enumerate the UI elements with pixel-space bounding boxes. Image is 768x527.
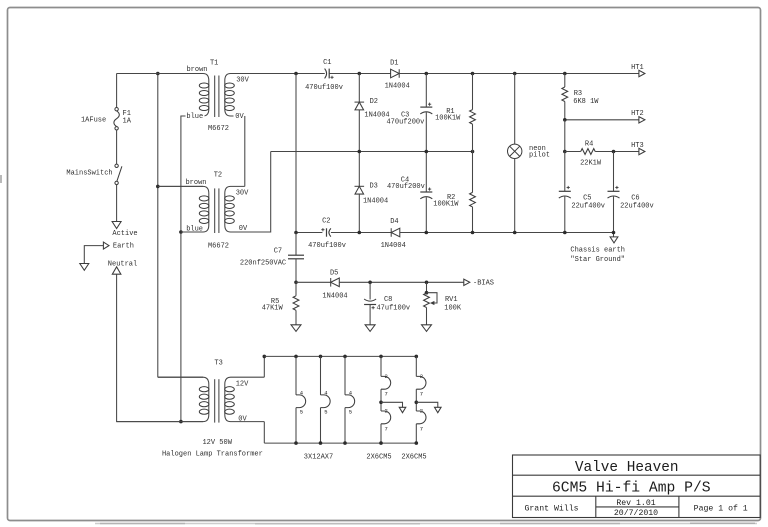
resistor R1 xyxy=(470,110,476,125)
wire mid rail to R2 xyxy=(472,152,474,193)
junction heater mid 6CM5 #2 xyxy=(415,401,419,405)
junction Active bus at top rail xyxy=(156,72,160,76)
scan artifact bottom edge xyxy=(95,523,757,525)
wire R1 to mid rail xyxy=(472,124,474,151)
svg-text:"Star Ground": "Star Ground" xyxy=(570,256,625,264)
wire top rail to C3 xyxy=(425,74,427,108)
heater 6CM5 #2 wire bottom xyxy=(415,424,417,443)
resistor R5 xyxy=(293,296,299,311)
junction mid rail D2/D3 xyxy=(358,150,362,154)
heater 6CM5 #2 upper xyxy=(416,376,426,389)
svg-text:Neutral: Neutral xyxy=(108,260,137,268)
svg-text:brown: brown xyxy=(185,179,206,187)
junction heater bottom bus 12AX7 #3 xyxy=(343,441,347,445)
svg-text:M6672: M6672 xyxy=(208,125,229,133)
wire T3 0V to heater bottom bus xyxy=(263,422,265,444)
svg-text:1N4004: 1N4004 xyxy=(381,242,406,250)
junction top rail C7 bus xyxy=(294,72,298,76)
svg-text:30V: 30V xyxy=(236,77,249,85)
svg-text:Valve Heaven: Valve Heaven xyxy=(575,460,679,476)
svg-text:C1: C1 xyxy=(323,59,331,67)
svg-text:-BIAS: -BIAS xyxy=(473,279,494,287)
wire D4 to chassis earth corner xyxy=(400,233,614,237)
svg-text:R4: R4 xyxy=(585,141,593,149)
wire HT2 row to arrow xyxy=(565,119,639,121)
svg-text:2X6CM5: 2X6CM5 xyxy=(401,454,426,462)
heater 12AX7 #2 wire bottom xyxy=(320,408,322,444)
wire neon to bottom rail xyxy=(514,159,516,233)
wire C4 to bottom rail xyxy=(425,197,427,232)
svg-text:C2: C2 xyxy=(322,217,330,225)
HT3 output arrow xyxy=(639,148,645,154)
junction heater bottom bus 6CM5 #1 xyxy=(379,441,383,445)
svg-text:2: 2 xyxy=(385,408,388,415)
junction heater bottom bus 12AX7 #2 xyxy=(319,441,323,445)
wire T2 0V up to mid rail xyxy=(231,152,271,233)
junction top rail C3 xyxy=(425,72,429,76)
svg-text:220nf250VAC: 220nf250VAC xyxy=(240,259,286,267)
wire bus C1-left down to bottom rail xyxy=(295,74,297,233)
heater 12AX7 #1 xyxy=(296,395,306,408)
diode D3 xyxy=(355,186,364,194)
heater 6CM5 #2 wire mid xyxy=(415,389,417,411)
capacitor C6 xyxy=(608,190,620,192)
svg-text:12V 50W: 12V 50W xyxy=(202,439,232,447)
wire D2 to mid rail xyxy=(358,110,360,152)
transformer T3 xyxy=(117,377,265,422)
svg-text:Page 1 of 1: Page 1 of 1 xyxy=(694,503,748,513)
svg-text:2: 2 xyxy=(385,373,388,380)
svg-text:3X12AX7: 3X12AX7 xyxy=(304,454,333,462)
ground symbol R5 xyxy=(291,325,301,332)
svg-text:22uf400v: 22uf400v xyxy=(571,203,605,211)
capacitor C8 xyxy=(364,299,376,301)
wire Active bus down to T2 and T3 primary tops xyxy=(157,74,159,378)
junction blue bus at T2 blue xyxy=(179,230,183,234)
wire mid rail to D3 xyxy=(358,152,360,187)
Earth terminal arrow xyxy=(103,242,109,249)
wire C6 to bottom rail xyxy=(613,197,615,233)
heater 12AX7 #2 wire top xyxy=(320,356,322,395)
heater 6CM5 #1 wire bottom xyxy=(380,424,382,443)
diode D5 xyxy=(331,278,340,287)
junction bottom rail C5 xyxy=(563,231,567,235)
svg-text:D1: D1 xyxy=(390,59,398,67)
capacitor C2 xyxy=(326,228,328,236)
wire HT2 node down to HT3 node xyxy=(564,120,566,152)
ground symbol C8 xyxy=(365,325,375,332)
capacitor C5 xyxy=(559,190,571,192)
wire blue bus T1 primary bottom down xyxy=(181,116,203,422)
junction bias row C8 xyxy=(368,281,372,285)
junction bottom rail R2 xyxy=(471,231,475,235)
wire D3 to bottom rail xyxy=(358,194,360,232)
chassis earth arrow xyxy=(610,237,618,243)
junction mid rail C3/C4 xyxy=(425,150,429,154)
capacitor C7 xyxy=(288,254,304,256)
label 0V T1 xyxy=(234,112,246,119)
svg-text:47uf100v: 47uf100v xyxy=(376,305,410,313)
svg-text:22K1W: 22K1W xyxy=(580,159,602,167)
svg-text:blue: blue xyxy=(186,226,203,234)
junction bottom rail C4 xyxy=(425,231,429,235)
svg-text:HT2: HT2 xyxy=(631,110,644,118)
heater 6CM5 #2 lower xyxy=(416,411,426,424)
wire Neutral bus down and right to T3 primary bottom xyxy=(117,274,203,421)
title block divider 1 xyxy=(513,474,761,476)
svg-text:1N4004: 1N4004 xyxy=(322,292,347,300)
heater 12AX7 #3 wire top xyxy=(344,356,346,395)
svg-text:47K1W: 47K1W xyxy=(262,305,284,313)
wire mid rail (T2 0V to R1/R2 junction) xyxy=(271,151,473,153)
junction heater top bus 6CM5 #2 xyxy=(415,355,419,359)
HT1 output arrow xyxy=(639,70,645,76)
svg-text:D3: D3 xyxy=(369,183,377,191)
svg-text:Earth: Earth xyxy=(113,243,134,251)
svg-text:470uf100v: 470uf100v xyxy=(305,84,343,92)
svg-text:30V: 30V xyxy=(236,190,249,198)
junction heater top bus 6CM5 #1 xyxy=(379,355,383,359)
wire C6 column xyxy=(613,152,615,192)
wire T2 blue to blue bus xyxy=(181,231,203,233)
svg-text:100K1W: 100K1W xyxy=(435,115,461,123)
svg-text:RV1: RV1 xyxy=(445,296,458,304)
wire T3 12V to heater top bus xyxy=(263,356,265,377)
HT2 output arrow xyxy=(639,117,645,123)
svg-text:6CM5 Hi-fi Amp P/S: 6CM5 Hi-fi Amp P/S xyxy=(552,481,711,497)
Neutral terminal arrow (up) xyxy=(112,267,121,274)
junction bottom rail neon xyxy=(513,231,517,235)
junction HT3 node left xyxy=(563,150,567,154)
junction heater bottom bus 6CM5 #2 xyxy=(415,441,419,445)
heater 12AX7 #3 xyxy=(345,395,355,408)
wire top rail to R1 xyxy=(472,74,474,110)
heater 6CM5 #1 upper xyxy=(381,376,391,389)
title block divider 2 xyxy=(513,495,761,497)
svg-text:D4: D4 xyxy=(390,218,398,226)
wire C5 to bottom rail xyxy=(564,197,566,233)
svg-text:2X6CM5: 2X6CM5 xyxy=(366,454,391,462)
transformer T2 xyxy=(158,186,271,233)
svg-text:Rev 1.01: Rev 1.01 xyxy=(616,499,655,508)
heater 6CM5 #1 lower xyxy=(381,411,391,424)
svg-text:R3: R3 xyxy=(574,90,582,98)
resistor R3 xyxy=(562,87,568,102)
heater 6CM5 #2 wire top xyxy=(415,356,417,376)
junction heater top bus 12AX7 #3 xyxy=(343,355,347,359)
junction bias row R5 xyxy=(294,281,298,285)
svg-text:Chassis earth: Chassis earth xyxy=(570,247,625,255)
trimpot RV1 xyxy=(424,293,430,308)
svg-text:5: 5 xyxy=(349,409,352,416)
wire HT3 node to C5 xyxy=(564,152,566,192)
svg-text:7: 7 xyxy=(420,391,423,398)
svg-text:D2: D2 xyxy=(370,98,378,106)
diode D2 xyxy=(355,102,364,110)
svg-text:MainsSwitch: MainsSwitch xyxy=(66,170,112,178)
svg-text:C7: C7 xyxy=(274,247,282,255)
wire mid rail to C4 xyxy=(425,152,427,193)
wire Active feed from top rail to fuse xyxy=(116,74,118,108)
resistor R5 wire xyxy=(295,282,297,296)
wire R5 to ground xyxy=(295,310,297,325)
svg-text:C6: C6 xyxy=(631,194,639,202)
heater 12AX7 #1 wire top xyxy=(295,356,297,395)
svg-text:T2: T2 xyxy=(214,171,222,179)
wire heater bottom bus xyxy=(264,442,416,444)
wire C2 to D4 xyxy=(331,232,391,234)
capacitor C8 wire xyxy=(369,282,371,299)
junction Active bus at T2 brown xyxy=(156,185,160,189)
ground symbol RV1 xyxy=(422,325,432,332)
wire switch to Active terminal xyxy=(116,185,118,222)
wire C1 to D1 xyxy=(329,73,390,75)
wire R4 to HT3 arrow xyxy=(595,151,639,153)
svg-text:T3: T3 xyxy=(214,359,222,367)
ground symbol 6CM5 #1 xyxy=(399,407,406,412)
capacitor C3 xyxy=(420,106,432,108)
svg-text:7: 7 xyxy=(420,425,423,432)
resistor R4 xyxy=(581,149,596,155)
wire D5 to BIAS arrow xyxy=(339,281,464,283)
svg-text:HT1: HT1 xyxy=(631,64,644,72)
svg-text:brown: brown xyxy=(186,66,207,74)
title block vertical divider left xyxy=(595,496,597,517)
svg-text:1AFuse: 1AFuse xyxy=(81,117,106,125)
wire top rail to neon xyxy=(514,74,516,145)
junction mid rail R1/R2 xyxy=(471,150,475,154)
svg-text:7: 7 xyxy=(385,391,388,398)
BIAS output arrow xyxy=(464,279,470,285)
wire bottom rail to C7 xyxy=(295,233,297,256)
svg-text:6K8 1W: 6K8 1W xyxy=(573,98,599,106)
wire C3 to mid rail xyxy=(425,112,427,151)
switch MainsSwitch xyxy=(115,164,118,167)
junction top rail D2 xyxy=(358,72,362,76)
wire top rail to D2 xyxy=(358,74,360,103)
svg-text:22uf400v: 22uf400v xyxy=(620,203,654,211)
wire bias row to D5 xyxy=(296,281,331,283)
resistor R2 xyxy=(470,192,476,206)
wire heater top bus xyxy=(264,355,416,357)
wire R3 to HT2 node xyxy=(564,102,566,120)
svg-text:2: 2 xyxy=(420,373,423,380)
svg-text:470uf200v: 470uf200v xyxy=(387,183,425,191)
wire top rail left (Active to T1 brown) xyxy=(117,73,203,75)
svg-text:1N4004: 1N4004 xyxy=(385,83,410,91)
junction heater top bus 12AX7 #2 xyxy=(319,355,323,359)
wire fuse to switch xyxy=(116,130,118,164)
svg-text:pilot: pilot xyxy=(529,151,550,159)
svg-text:100K1W: 100K1W xyxy=(433,201,459,209)
diode D4 xyxy=(391,228,400,237)
heater 12AX7 #2 xyxy=(321,395,331,408)
svg-text:Active: Active xyxy=(112,230,137,238)
svg-text:2: 2 xyxy=(420,408,423,415)
scan artifact left edge xyxy=(0,175,2,183)
wire T1 0V to T2 30V xyxy=(244,116,246,186)
junction top rail R3 xyxy=(563,72,567,76)
wire RV1 to ground xyxy=(426,308,428,325)
title block frame xyxy=(513,455,761,518)
svg-text:D5: D5 xyxy=(330,269,338,277)
svg-text:12V: 12V xyxy=(236,381,249,389)
junction bias row RV1 xyxy=(425,281,429,285)
junction HT2 node xyxy=(563,118,567,122)
label blue T1 xyxy=(186,112,205,119)
junction bottom rail bus xyxy=(294,231,298,235)
svg-text:C5: C5 xyxy=(583,194,591,202)
wire HT3 node to R4 xyxy=(565,151,581,153)
wire R2 to bottom rail xyxy=(472,207,474,233)
wire 6CM5 #2 mid to ground xyxy=(416,402,438,407)
heater 6CM5 #1 wire mid xyxy=(380,389,382,411)
junction top rail neon xyxy=(513,72,517,76)
trimpot RV1 wire xyxy=(426,282,428,293)
svg-text:blue: blue xyxy=(186,113,203,121)
wire D1 to HT1 arrow xyxy=(399,73,639,75)
junction heater top bus 12AX7 #1 xyxy=(294,355,298,359)
svg-text:470uf200v: 470uf200v xyxy=(386,119,424,127)
wire 6CM5 #1 mid to ground xyxy=(381,402,403,407)
svg-text:M6672: M6672 xyxy=(208,243,229,251)
svg-text:20/7/2010: 20/7/2010 xyxy=(614,508,658,518)
title block vertical divider right xyxy=(678,496,680,517)
wire Earth to ground xyxy=(84,246,103,264)
junction heater top bus corner xyxy=(263,355,267,359)
svg-text:Halogen Lamp Transformer: Halogen Lamp Transformer xyxy=(162,451,263,459)
junction heater mid 6CM5 #1 xyxy=(379,401,383,405)
diode D1 xyxy=(391,69,400,78)
junction bottom rail D3 xyxy=(358,231,362,235)
wire bottom rail left (bus to C2) xyxy=(296,232,322,234)
junction HT3 node right (C6) xyxy=(612,150,616,154)
svg-text:0V: 0V xyxy=(238,416,247,424)
fuse F1 xyxy=(115,108,118,111)
neon pilot lamp xyxy=(508,144,522,158)
junction bottom rail C6 chassis xyxy=(612,231,616,235)
svg-text:HT3: HT3 xyxy=(631,142,644,150)
wire top rail to R3 xyxy=(564,74,566,88)
junction blue bus at Neutral wire xyxy=(179,420,183,424)
svg-text:100K: 100K xyxy=(444,305,462,313)
svg-text:7: 7 xyxy=(385,425,388,432)
heater 12AX7 #1 wire bottom xyxy=(295,408,297,444)
ground symbol Earth xyxy=(80,264,89,271)
ground symbol 6CM5 #2 xyxy=(435,407,442,412)
svg-text:C8: C8 xyxy=(384,296,392,304)
capacitor C1 xyxy=(325,69,327,79)
junction heater bottom bus 12AX7 #1 xyxy=(294,441,298,445)
Active terminal arrow xyxy=(112,222,121,229)
wire C8 to ground xyxy=(369,305,371,325)
svg-text:5: 5 xyxy=(300,409,303,416)
svg-text:T1: T1 xyxy=(210,60,218,68)
svg-text:1A: 1A xyxy=(123,117,132,125)
svg-text:1N4004: 1N4004 xyxy=(363,198,388,206)
junction top rail R1 xyxy=(471,72,475,76)
junction RV1 wiper xyxy=(425,291,429,295)
svg-text:0V: 0V xyxy=(235,113,244,121)
title block rev/date divider xyxy=(596,506,679,508)
wire C7 to bias row xyxy=(295,259,297,283)
svg-text:Grant Wills: Grant Wills xyxy=(524,503,578,513)
heater 12AX7 #3 wire bottom xyxy=(344,408,346,444)
capacitor C4 xyxy=(420,191,432,193)
transformer T1 xyxy=(117,74,325,118)
heater 6CM5 #1 wire top xyxy=(380,356,382,376)
svg-text:5: 5 xyxy=(324,409,327,416)
wire top rail T1 30V to C1 xyxy=(231,73,325,75)
svg-text:470uf100v: 470uf100v xyxy=(308,242,346,250)
